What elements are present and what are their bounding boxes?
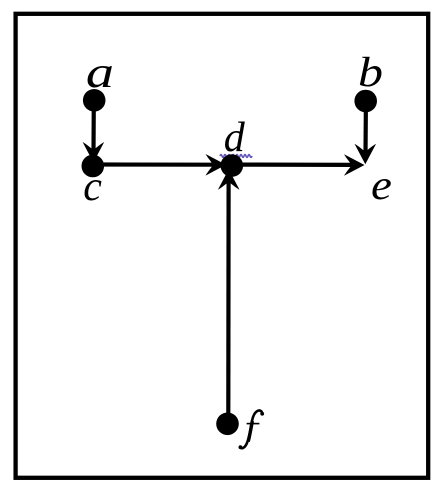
- label f: [239, 411, 265, 450]
- arrowhead into d from c: [206, 154, 227, 176]
- wire f to d: [226, 180, 231, 420]
- svg-text:b: b: [358, 49, 383, 95]
- spellcheck squiggle under d: [220, 155, 252, 158]
- wire c to d: [95, 162, 216, 166]
- arrowhead into c: [83, 142, 105, 163]
- node d: [221, 154, 244, 177]
- node a: [83, 89, 106, 112]
- wire b to e: [363, 103, 368, 154]
- arrowhead into e from d: [344, 154, 365, 176]
- arrowhead into e from b: [355, 144, 377, 165]
- svg-text:d: d: [224, 115, 246, 161]
- wire d to e: [240, 163, 354, 167]
- node f: [216, 413, 239, 436]
- svg-text:c: c: [83, 164, 102, 210]
- arrowhead into d from f: [218, 169, 240, 190]
- node b: [354, 90, 377, 113]
- svg-text:e: e: [371, 161, 392, 208]
- svg-text:a: a: [86, 47, 114, 96]
- wire a to c: [91, 102, 96, 152]
- node c: [82, 155, 105, 178]
